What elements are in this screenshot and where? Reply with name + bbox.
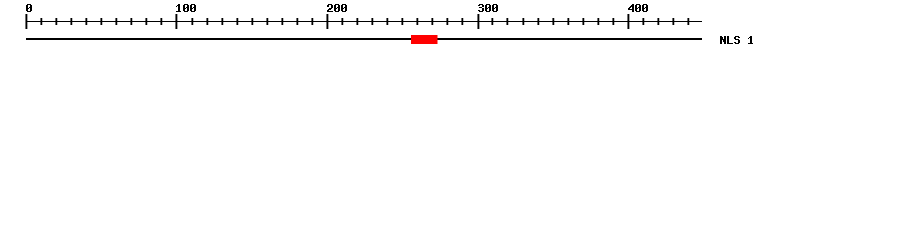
ruler label 0 <box>26 4 32 12</box>
ruler label 400 <box>628 4 648 12</box>
ruler label 200 <box>327 4 347 12</box>
ruler label 100 <box>176 4 196 12</box>
ruler axis line <box>26 21 702 22</box>
background <box>0 0 900 58</box>
protein sequence feature map: scale ruler + sequence line with NLS domain <box>0 0 900 58</box>
NLS 1 domain box (red) <box>411 35 438 44</box>
sequence line <box>26 38 702 40</box>
NLS 1 label <box>720 36 753 44</box>
ruler tick marks (major every 100, minor every 10) <box>25 14 689 29</box>
ruler label 300 <box>478 4 498 12</box>
